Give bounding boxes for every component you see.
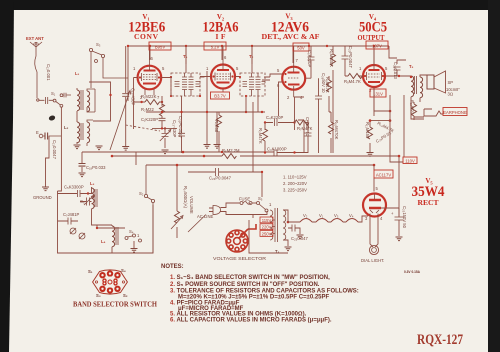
tube V4 heading 50C5 bbox=[358, 13, 388, 42]
speaker SP bbox=[427, 71, 460, 97]
svg-text:CONV: CONV bbox=[134, 32, 159, 41]
svg-text:C₂₂P0.004T: C₂₂P0.004T bbox=[348, 46, 353, 69]
voltage callout box below 12BA6 bbox=[211, 92, 230, 99]
svg-text:S₃: S₃ bbox=[96, 293, 101, 298]
resistor R5 2.2M AVC bbox=[222, 148, 240, 159]
switch S5 power bbox=[257, 196, 273, 212]
band rosette labels S1-S4 bbox=[88, 268, 128, 298]
capacitor C20 0.0047 bbox=[178, 96, 185, 153]
capacitor C18 0.033 to ground bbox=[79, 152, 107, 177]
svg-text:R₁M22K: R₁M22K bbox=[141, 94, 157, 99]
tube 12AV6 V3 bbox=[264, 46, 311, 116]
voltage callout box below 50C5 bbox=[370, 89, 386, 97]
variable capacitor C12 430P bbox=[122, 46, 135, 150]
svg-text:S₃: S₃ bbox=[96, 42, 101, 47]
capacitor C25 0.047 bbox=[288, 225, 308, 242]
svg-text:R₁₁M150: R₁₁M150 bbox=[365, 122, 370, 139]
svg-text:C₂₄P0.0047: C₂₄P0.0047 bbox=[209, 176, 232, 181]
power transformer T4 bbox=[270, 208, 292, 254]
terminal E with capacitor C15 bbox=[36, 130, 61, 160]
svg-text:AC117V: AC117V bbox=[376, 173, 391, 178]
voltage callout box above 50C5 bbox=[366, 41, 388, 49]
svg-text:B95V: B95V bbox=[155, 45, 165, 50]
svg-text:1. S₁~S₄ BAND SELECTOR SWITCH: 1. S₁~S₄ BAND SELECTOR SWITCH IN "MW" PO… bbox=[170, 275, 330, 281]
wire L1 secondary loop bbox=[89, 82, 112, 121]
wire oscillator grid diagonal bbox=[110, 91, 131, 151]
capacitor C11 electrolytic 50V10 bbox=[305, 117, 312, 153]
tube V2 heading 12BA6 bbox=[203, 13, 239, 41]
resistor R12 M22 bbox=[410, 100, 419, 120]
svg-text:FUSE: FUSE bbox=[239, 197, 250, 202]
ground mid cluster bbox=[204, 112, 221, 148]
tube 35W4 V5 rectifier bbox=[363, 186, 399, 221]
voltage callout box above 35W4 bbox=[374, 165, 393, 192]
resistor R2 22 bbox=[141, 96, 165, 117]
AC plug bbox=[188, 203, 267, 232]
resistor R8 M47K bbox=[325, 76, 332, 112]
voltage range list bbox=[283, 175, 307, 193]
output transformer T5 bbox=[398, 64, 427, 119]
svg-text:GROUND: GROUND bbox=[33, 195, 52, 200]
resistor R4 K68 cathode 12BA6 bbox=[214, 112, 222, 152]
svg-text:C₆K220P: C₆K220P bbox=[307, 50, 312, 67]
svg-text:C₂₃150V 50: C₂₃150V 50 bbox=[402, 206, 407, 229]
feedback wire vertical 2 bbox=[403, 95, 405, 157]
volume potentiometer R14 bbox=[171, 186, 194, 229]
svg-text:DET., AVC & AF: DET., AVC & AF bbox=[262, 33, 320, 41]
wire AVC to band switch vertical bbox=[135, 152, 137, 165]
voltage callout box above 12AV6 bbox=[293, 43, 309, 51]
svg-text:C₁₂0.001: C₁₂0.001 bbox=[46, 64, 51, 81]
antenna EXT ANT bbox=[26, 36, 44, 88]
svg-text:S₄: S₄ bbox=[121, 268, 126, 273]
svg-text:S₁: S₁ bbox=[88, 269, 93, 274]
transformer tap boxes bbox=[260, 217, 275, 236]
ground terminal wire and GROUND label bbox=[33, 136, 61, 200]
switch S4 bbox=[96, 227, 142, 252]
capacitor C14 0.001 bbox=[37, 64, 54, 104]
svg-text:C₅K3300P: C₅K3300P bbox=[64, 185, 84, 190]
wire T2 can top drop bbox=[185, 46, 187, 64]
svg-text:C₁K220P: C₁K220P bbox=[141, 117, 158, 122]
notes block bbox=[161, 264, 421, 323]
wire C24 branch line bbox=[188, 172, 262, 197]
resistor R10 M470K bbox=[329, 112, 340, 153]
wire B+ top bus bbox=[128, 45, 389, 47]
svg-text:S₄: S₄ bbox=[129, 229, 134, 234]
svg-text:L₁: L₁ bbox=[75, 71, 80, 76]
svg-text:R₆M330K: R₆M330K bbox=[329, 49, 334, 67]
svg-text:50V: 50V bbox=[297, 46, 305, 51]
svg-text:220V: 220V bbox=[262, 225, 272, 230]
svg-text:L₄: L₄ bbox=[101, 239, 106, 244]
tube V5 heading 35W4 bbox=[412, 177, 445, 207]
svg-text:110V: 110V bbox=[405, 158, 415, 163]
capacitor C26 electrolytic 50V10 bbox=[315, 73, 326, 153]
svg-text:DIAL LIGHT.: DIAL LIGHT. bbox=[361, 258, 384, 263]
svg-text:2. 200~220V: 2. 200~220V bbox=[283, 181, 307, 186]
wire volume branch bbox=[298, 120, 304, 153]
svg-text:115V: 115V bbox=[262, 218, 272, 223]
resistor R1 22K bbox=[134, 78, 164, 130]
svg-text:6. ALL CAPACITOR VALUES IN MIC: 6. ALL CAPACITOR VALUES IN MICRO FARADS … bbox=[170, 317, 332, 323]
wire 12BA6 top drop bbox=[221, 46, 223, 60]
switch S3 bbox=[89, 42, 128, 88]
capacitor C19 K220P bbox=[141, 117, 177, 130]
svg-text:R₃M47K: R₃M47K bbox=[258, 128, 263, 144]
svg-text:R₄K68: R₄K68 bbox=[214, 120, 219, 133]
wire left rail bbox=[60, 107, 62, 136]
svg-text:V₄: V₄ bbox=[349, 213, 354, 218]
svg-text:C₂₈0.013: C₂₈0.013 bbox=[393, 62, 398, 80]
svg-text:SP: SP bbox=[448, 80, 454, 85]
band selector rosette bbox=[93, 270, 128, 294]
svg-text:107V: 107V bbox=[372, 44, 382, 49]
svg-text:BAND SELECTOR SWITCH: BAND SELECTOR SWITCH bbox=[73, 302, 158, 309]
wire 12BE6 plate top drop bbox=[149, 46, 151, 60]
svg-text:R₉M4.7K: R₉M4.7K bbox=[344, 79, 361, 84]
svg-text:R₂M22: R₂M22 bbox=[141, 107, 154, 112]
svg-text:R₅M2.2M: R₅M2.2M bbox=[222, 148, 240, 153]
scan black bar top bbox=[0, 0, 500, 10]
svg-text:C₇J481P: C₇J481P bbox=[63, 212, 80, 217]
svg-text:S₅: S₅ bbox=[258, 196, 263, 201]
tube 12BE6 V1 bbox=[133, 46, 172, 100]
wire B+ lower bus bbox=[112, 155, 399, 157]
svg-text:IF: IF bbox=[216, 32, 226, 41]
svg-text:R₁₂M22: R₁₂M22 bbox=[410, 100, 415, 115]
capacitor C5' K3300P bbox=[58, 185, 90, 198]
capacitor C28 0.013 across primary bbox=[393, 60, 406, 80]
IF transformer T3 bbox=[239, 46, 265, 112]
trimmer C8 bbox=[70, 228, 85, 239]
wire voltage selector right loop bbox=[249, 220, 288, 253]
switch S1 bbox=[51, 91, 71, 107]
svg-text:C₁₂-430P: C₁₂-430P bbox=[131, 88, 136, 105]
svg-text:E: E bbox=[36, 130, 39, 135]
band coil loop wire bbox=[58, 191, 154, 253]
svg-text:V₃: V₃ bbox=[334, 213, 339, 218]
svg-text:VOLUME: VOLUME bbox=[189, 196, 194, 214]
scan black bar right bbox=[488, 0, 500, 352]
fuse bbox=[239, 197, 257, 205]
svg-text:R₈M47K: R₈M47K bbox=[325, 77, 330, 93]
capacitor C3 K1000P bbox=[264, 147, 296, 157]
wire 12AV6 diode line bbox=[258, 80, 270, 112]
wire AC feed bus bbox=[146, 164, 374, 166]
svg-text:0.3V 0.15A: 0.3V 0.15A bbox=[404, 270, 421, 274]
resistor R6 M330K bbox=[329, 46, 336, 153]
resistor R9 M4.7K grid 50C5 bbox=[344, 74, 363, 85]
svg-text:131V: 131V bbox=[373, 92, 383, 97]
wire IF secondary to AVC bus bbox=[206, 71, 208, 112]
svg-text:T₂: T₂ bbox=[249, 54, 254, 59]
capacitor C22 P0.0047 bbox=[342, 46, 354, 76]
voltage selector rosette bbox=[226, 224, 256, 252]
ground under L2 bbox=[74, 145, 81, 149]
wire 50C5 top drop bbox=[374, 46, 397, 65]
svg-text:NOTES:: NOTES: bbox=[161, 264, 184, 270]
svg-text:C₂₀P0.0047: C₂₀P0.0047 bbox=[178, 116, 183, 139]
switch S2 bbox=[139, 165, 155, 253]
wire AVC bus bbox=[82, 151, 308, 154]
trimmer C6 bbox=[80, 196, 94, 206]
wire T3 can top drop bbox=[251, 46, 253, 64]
capacitor C24 P0.0047 bbox=[209, 168, 232, 181]
svg-text:R₁₄500Ω(A): R₁₄500Ω(A) bbox=[183, 186, 188, 209]
svg-text:5.2V: 5.2V bbox=[211, 45, 220, 50]
coil L1 bbox=[75, 71, 95, 121]
tube V3 heading 12AV6 bbox=[262, 13, 320, 42]
voltage callout box 110V bbox=[403, 157, 417, 164]
svg-text:EARPHONE: EARPHONE bbox=[443, 110, 467, 115]
svg-text:C₁₈P0.033: C₁₈P0.033 bbox=[86, 165, 106, 170]
svg-text:250V: 250V bbox=[262, 231, 272, 236]
wire AVC vertical x253 bbox=[252, 102, 254, 172]
IF transformer T2 bbox=[170, 46, 201, 97]
coil L3 bbox=[88, 181, 97, 218]
resistor R7 M47K bbox=[295, 97, 313, 131]
svg-text:1. 110~125V: 1. 110~125V bbox=[283, 175, 307, 180]
svg-text:RECT: RECT bbox=[418, 198, 439, 207]
ink blob bbox=[48, 115, 56, 122]
capacitor C23 electrolytic 150V50 bbox=[391, 206, 407, 241]
svg-text:2. S₅ POWER SOURCE SWITCH IN ": 2. S₅ POWER SOURCE SWITCH IN "OFF" POSIT… bbox=[170, 282, 320, 288]
svg-text:T₅: T₅ bbox=[409, 64, 414, 69]
tube 50C5 V4 bbox=[358, 46, 411, 116]
resistor R3 M47K bbox=[258, 123, 268, 154]
wire volume feed vertical bbox=[176, 165, 178, 238]
coil L4 bbox=[92, 218, 119, 253]
tube V1 heading 12BE6 bbox=[128, 13, 165, 41]
svg-text:3Ω: 3Ω bbox=[448, 92, 454, 97]
svg-text:C₃K1000P: C₃K1000P bbox=[267, 147, 287, 152]
svg-text:V₁: V₁ bbox=[319, 213, 324, 218]
wire AVC mid bus bbox=[146, 97, 331, 113]
svg-text:C₁₃0.0047: C₁₃0.0047 bbox=[52, 140, 57, 160]
svg-text:3. 225~250V: 3. 225~250V bbox=[283, 188, 307, 193]
svg-text:L₂: L₂ bbox=[64, 125, 69, 130]
wire rectifier B+ vertical bbox=[398, 156, 400, 216]
svg-text:S₂: S₂ bbox=[139, 191, 144, 196]
earphone jack bbox=[414, 108, 467, 118]
wire drop to C12 tuning gang bbox=[127, 46, 129, 101]
svg-text:EXT ANT: EXT ANT bbox=[26, 36, 44, 41]
voltage callout box above 12BE6 bbox=[149, 42, 171, 50]
capacitor C5 K220P plate 12AV6 bbox=[307, 46, 315, 78]
resistor R11 M150 cathode 50C5 bbox=[365, 87, 391, 156]
svg-text:S₂: S₂ bbox=[123, 293, 128, 298]
svg-text:C₄K220P: C₄K220P bbox=[266, 115, 284, 120]
wire T2 to 12BA6 grid bbox=[200, 76, 205, 78]
wire 12AV6 top drop bbox=[292, 46, 294, 63]
svg-text:L₃: L₃ bbox=[90, 181, 95, 186]
heater chain wire with V2 V1 V3 V4 heaters bbox=[288, 213, 368, 222]
feedback wire vertical bbox=[390, 95, 403, 162]
svg-text:V₂: V₂ bbox=[303, 213, 308, 218]
variable capacitor C13 430P bbox=[160, 120, 177, 154]
capacitor C7 J481P bbox=[58, 212, 80, 225]
tube 12BA6 V2 bbox=[200, 46, 240, 92]
svg-text:RQX-127: RQX-127 bbox=[417, 332, 463, 348]
svg-text:T₆: T₆ bbox=[183, 54, 188, 59]
coil L2 bbox=[64, 120, 93, 146]
svg-text:S₁: S₁ bbox=[51, 91, 56, 96]
svg-text:VOLTAGE SELECTOR: VOLTAGE SELECTOR bbox=[213, 256, 266, 261]
voltage callout box above 12BA6 bbox=[204, 42, 226, 50]
capacitor C4 K220P bbox=[264, 115, 296, 126]
ground under L1 secondary bbox=[96, 146, 103, 150]
scan black bar left bbox=[0, 0, 14, 352]
svg-text:R₁₀M470K: R₁₀M470K bbox=[334, 120, 339, 140]
svg-text:C₁₁50V 10: C₁₁50V 10 bbox=[305, 117, 310, 137]
dial light bbox=[361, 216, 384, 263]
svg-text:B3.7V: B3.7V bbox=[214, 94, 226, 99]
dashed gang link C12-C13 bbox=[126, 125, 160, 131]
